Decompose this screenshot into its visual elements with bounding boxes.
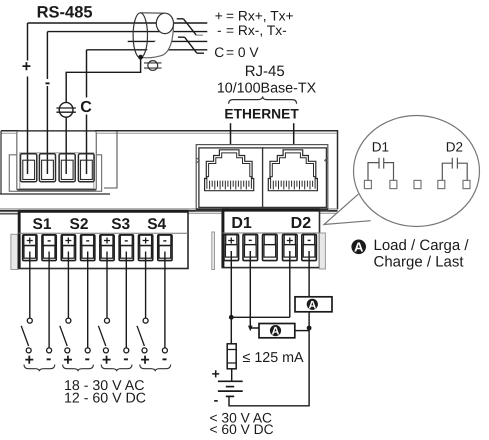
return wire to battery - — [229, 328, 309, 406]
cable jacket outline — [141, 23, 174, 57]
RS-485 plug bottom edge — [17, 189, 97, 191]
svg-text:ETHERNET: ETHERNET — [224, 106, 299, 121]
D1 - wire with arrow — [250, 251, 259, 328]
D2 terminal - — [302, 233, 317, 261]
S1 - wire — [48, 252, 50, 349]
relay contact D1 (balloon) — [368, 158, 394, 181]
ethernet housing bottom band — [196, 208, 328, 210]
svg-text:+: + — [140, 352, 149, 369]
load box A2 (upper) — [295, 297, 332, 312]
svg-text:-: - — [85, 351, 90, 368]
contact S1 - — [47, 348, 52, 353]
svg-text:C: C — [214, 45, 224, 60]
ethernet housing latch notch right — [325, 158, 328, 163]
wire shield drain into RS-485 terminal 3 — [66, 57, 140, 174]
svg-text:-: - — [45, 74, 50, 91]
svg-text:-: - — [123, 351, 128, 368]
contact S2 - — [85, 348, 90, 353]
switch S2 — [60, 318, 71, 353]
svg-text:+: + — [286, 233, 293, 247]
cable conductor - — [47, 31, 207, 33]
wire load A1 to return — [295, 330, 309, 332]
S3 + wire — [106, 252, 108, 319]
RS-485 terminal 2 — [39, 154, 55, 182]
junction dot D1+ — [229, 315, 234, 320]
D2 + wire — [289, 251, 291, 317]
pointer line to RJ-45 jack 1 — [230, 123, 232, 170]
S2 terminal + — [61, 234, 75, 261]
RS-485 terminal 4 — [78, 154, 94, 182]
pointer line to RJ-45 jack 2 — [293, 123, 295, 170]
S4 terminal + — [138, 234, 152, 261]
RJ-45 jack 2 frame — [263, 148, 327, 208]
svg-text:A: A — [272, 326, 280, 338]
RS-485 terminal 3 — [59, 154, 75, 182]
ethernet housing latch notch left — [196, 158, 199, 163]
S1 + wire — [29, 252, 31, 319]
svg-text:-: - — [124, 233, 128, 247]
D2 - wire into load A2 — [308, 251, 310, 297]
svg-text:-: - — [214, 391, 219, 407]
svg-text:-: - — [86, 233, 90, 247]
ethernet housing — [196, 145, 328, 211]
device bottom-left edge — [0, 193, 110, 195]
svg-text:+: + — [102, 352, 111, 369]
wire + vertical into RS-485 terminal 1 — [27, 23, 29, 174]
D block socket stub right — [320, 233, 326, 269]
svg-text:+: + — [65, 234, 72, 248]
D terminal block body — [222, 209, 319, 268]
switch S4 — [137, 318, 148, 353]
RJ-45 jack 1 frame — [199, 148, 263, 208]
svg-text:-: - — [307, 233, 311, 247]
S3 terminal + — [100, 234, 114, 261]
svg-text:12 - 60 V DC: 12 - 60 V DC — [64, 390, 146, 406]
svg-text:+: + — [26, 234, 33, 248]
svg-text:D1: D1 — [372, 140, 389, 155]
underbrace S2 pair — [63, 365, 94, 372]
svg-text:S3: S3 — [111, 216, 130, 233]
svg-text:Load / Carga /: Load / Carga / — [374, 237, 470, 254]
S4 terminal - — [158, 233, 172, 261]
brace over ETHERNET — [229, 96, 297, 103]
S2 - wire — [87, 252, 89, 349]
device RS-485 recess — [104, 132, 117, 189]
svg-text:+: + — [103, 234, 110, 248]
callout balloon — [324, 116, 480, 227]
junction dot return — [307, 326, 312, 331]
svg-text:+: + — [63, 352, 72, 369]
wire C vertical into RS-485 terminal 4 — [86, 50, 88, 174]
shield ground symbol on drain wire — [56, 102, 76, 117]
svg-text:S4: S4 — [147, 216, 166, 233]
RJ-45 jack 1 pin comb — [210, 181, 249, 190]
S2 + wire — [67, 252, 69, 319]
RS-485 terminal 1 — [21, 154, 37, 182]
svg-text:≤ 125 mA: ≤ 125 mA — [243, 350, 305, 366]
balloon terminal squares — [364, 180, 470, 188]
svg-text:RJ-45: RJ-45 — [245, 63, 285, 80]
svg-text:= Rx-, Tx-: = Rx-, Tx- — [226, 23, 287, 38]
D1 terminal - — [243, 233, 258, 261]
svg-text:= 0 V: = 0 V — [226, 45, 259, 60]
relay contact D2 (balloon) — [442, 158, 467, 181]
RJ-45 jack 1 cutout — [205, 150, 254, 191]
cable shield ellipse — [133, 13, 147, 58]
wire load A2 down to junction — [308, 312, 310, 328]
underbrace S3 pair — [101, 365, 132, 372]
D terminals (5) — [224, 233, 316, 261]
legend symbol A — [351, 240, 366, 255]
cable conductor + — [28, 22, 208, 24]
svg-text:+: + — [215, 9, 223, 24]
contact S3 - — [124, 348, 129, 353]
arrowhead on D1- wire — [248, 326, 253, 332]
S2 terminal - — [81, 233, 95, 261]
D2 terminal + — [283, 233, 298, 260]
svg-text:D2: D2 — [446, 140, 463, 155]
shield junction dot — [138, 55, 143, 60]
D1 terminal + — [224, 233, 239, 260]
svg-text:C: C — [80, 99, 92, 116]
S terminals (8) — [23, 233, 172, 261]
svg-text:-: - — [46, 351, 51, 368]
shield symbol near cable — [144, 61, 162, 71]
wire D1+/D2+ link — [231, 316, 289, 318]
svg-text:= Rx+, Tx+: = Rx+, Tx+ — [226, 9, 294, 24]
svg-text:+: + — [142, 234, 149, 248]
S block socket stub left — [11, 234, 18, 269]
fuse F1 — [227, 317, 236, 381]
cable conductor middle — [128, 40, 208, 42]
socket stub between S and D blocks — [212, 232, 215, 270]
cable jacket bulge (white mask) — [141, 23, 174, 57]
load box A1 (lower) — [259, 324, 295, 338]
RS-485 plug flange — [9, 155, 101, 192]
contact S4 - — [162, 348, 167, 353]
underbrace S4 pair — [140, 365, 171, 372]
wire break mark pair 2 — [178, 37, 204, 53]
svg-text:10/100Base-TX: 10/100Base-TX — [217, 80, 317, 96]
svg-text:S2: S2 — [70, 216, 89, 233]
svg-text:A: A — [308, 299, 316, 311]
RS-485 plug body — [17, 131, 97, 190]
svg-text:RS-485: RS-485 — [37, 4, 93, 22]
S4 + wire — [145, 252, 147, 319]
svg-text:+: + — [25, 352, 34, 369]
S1 terminal + — [23, 234, 37, 261]
S terminal block body — [19, 211, 189, 269]
switch S1 — [21, 318, 32, 353]
svg-text:A: A — [354, 240, 364, 255]
svg-text:-: - — [248, 233, 252, 247]
battery — [218, 381, 243, 396]
wire stub left of S block — [0, 213, 18, 215]
S1 terminal - — [42, 233, 56, 261]
switch S3 — [98, 318, 109, 353]
svg-text:+: + — [212, 365, 220, 381]
svg-text:Charge / Last: Charge / Last — [374, 254, 465, 271]
svg-text:< 60 V DC: < 60 V DC — [210, 422, 274, 437]
svg-text:-: - — [47, 233, 51, 247]
cable jacket top edge — [140, 12, 165, 14]
S input wiring (switch circuits) — [30, 252, 165, 349]
cable jacket end ellipse — [156, 13, 173, 33]
svg-text:-: - — [217, 23, 222, 38]
D1 + wire with junction — [230, 251, 232, 317]
svg-text:+: + — [22, 59, 31, 76]
svg-text:D1: D1 — [231, 215, 252, 232]
RS-485 plug inner recess — [20, 153, 94, 189]
underbrace S1 pair — [24, 365, 55, 372]
svg-text:+: + — [228, 233, 235, 247]
wire break mark pair 1 — [177, 19, 203, 35]
RJ-45 jack 2 cutout — [268, 150, 317, 191]
D blank middle terminal — [263, 234, 278, 260]
svg-text:S1: S1 — [33, 216, 52, 233]
svg-text:D2: D2 — [291, 215, 312, 232]
cable conductor C — [87, 49, 208, 51]
device housing top edge — [1, 131, 338, 209]
wire - vertical into RS-485 terminal 2 — [46, 32, 48, 174]
RJ-45 jack 2 pin comb — [273, 181, 312, 190]
svg-text:-: - — [163, 233, 167, 247]
S3 terminal - — [119, 233, 133, 261]
device bottom rail band — [0, 209, 338, 214]
S3 - wire — [125, 252, 127, 349]
svg-text:-: - — [162, 351, 167, 368]
S4 - wire — [164, 252, 166, 349]
